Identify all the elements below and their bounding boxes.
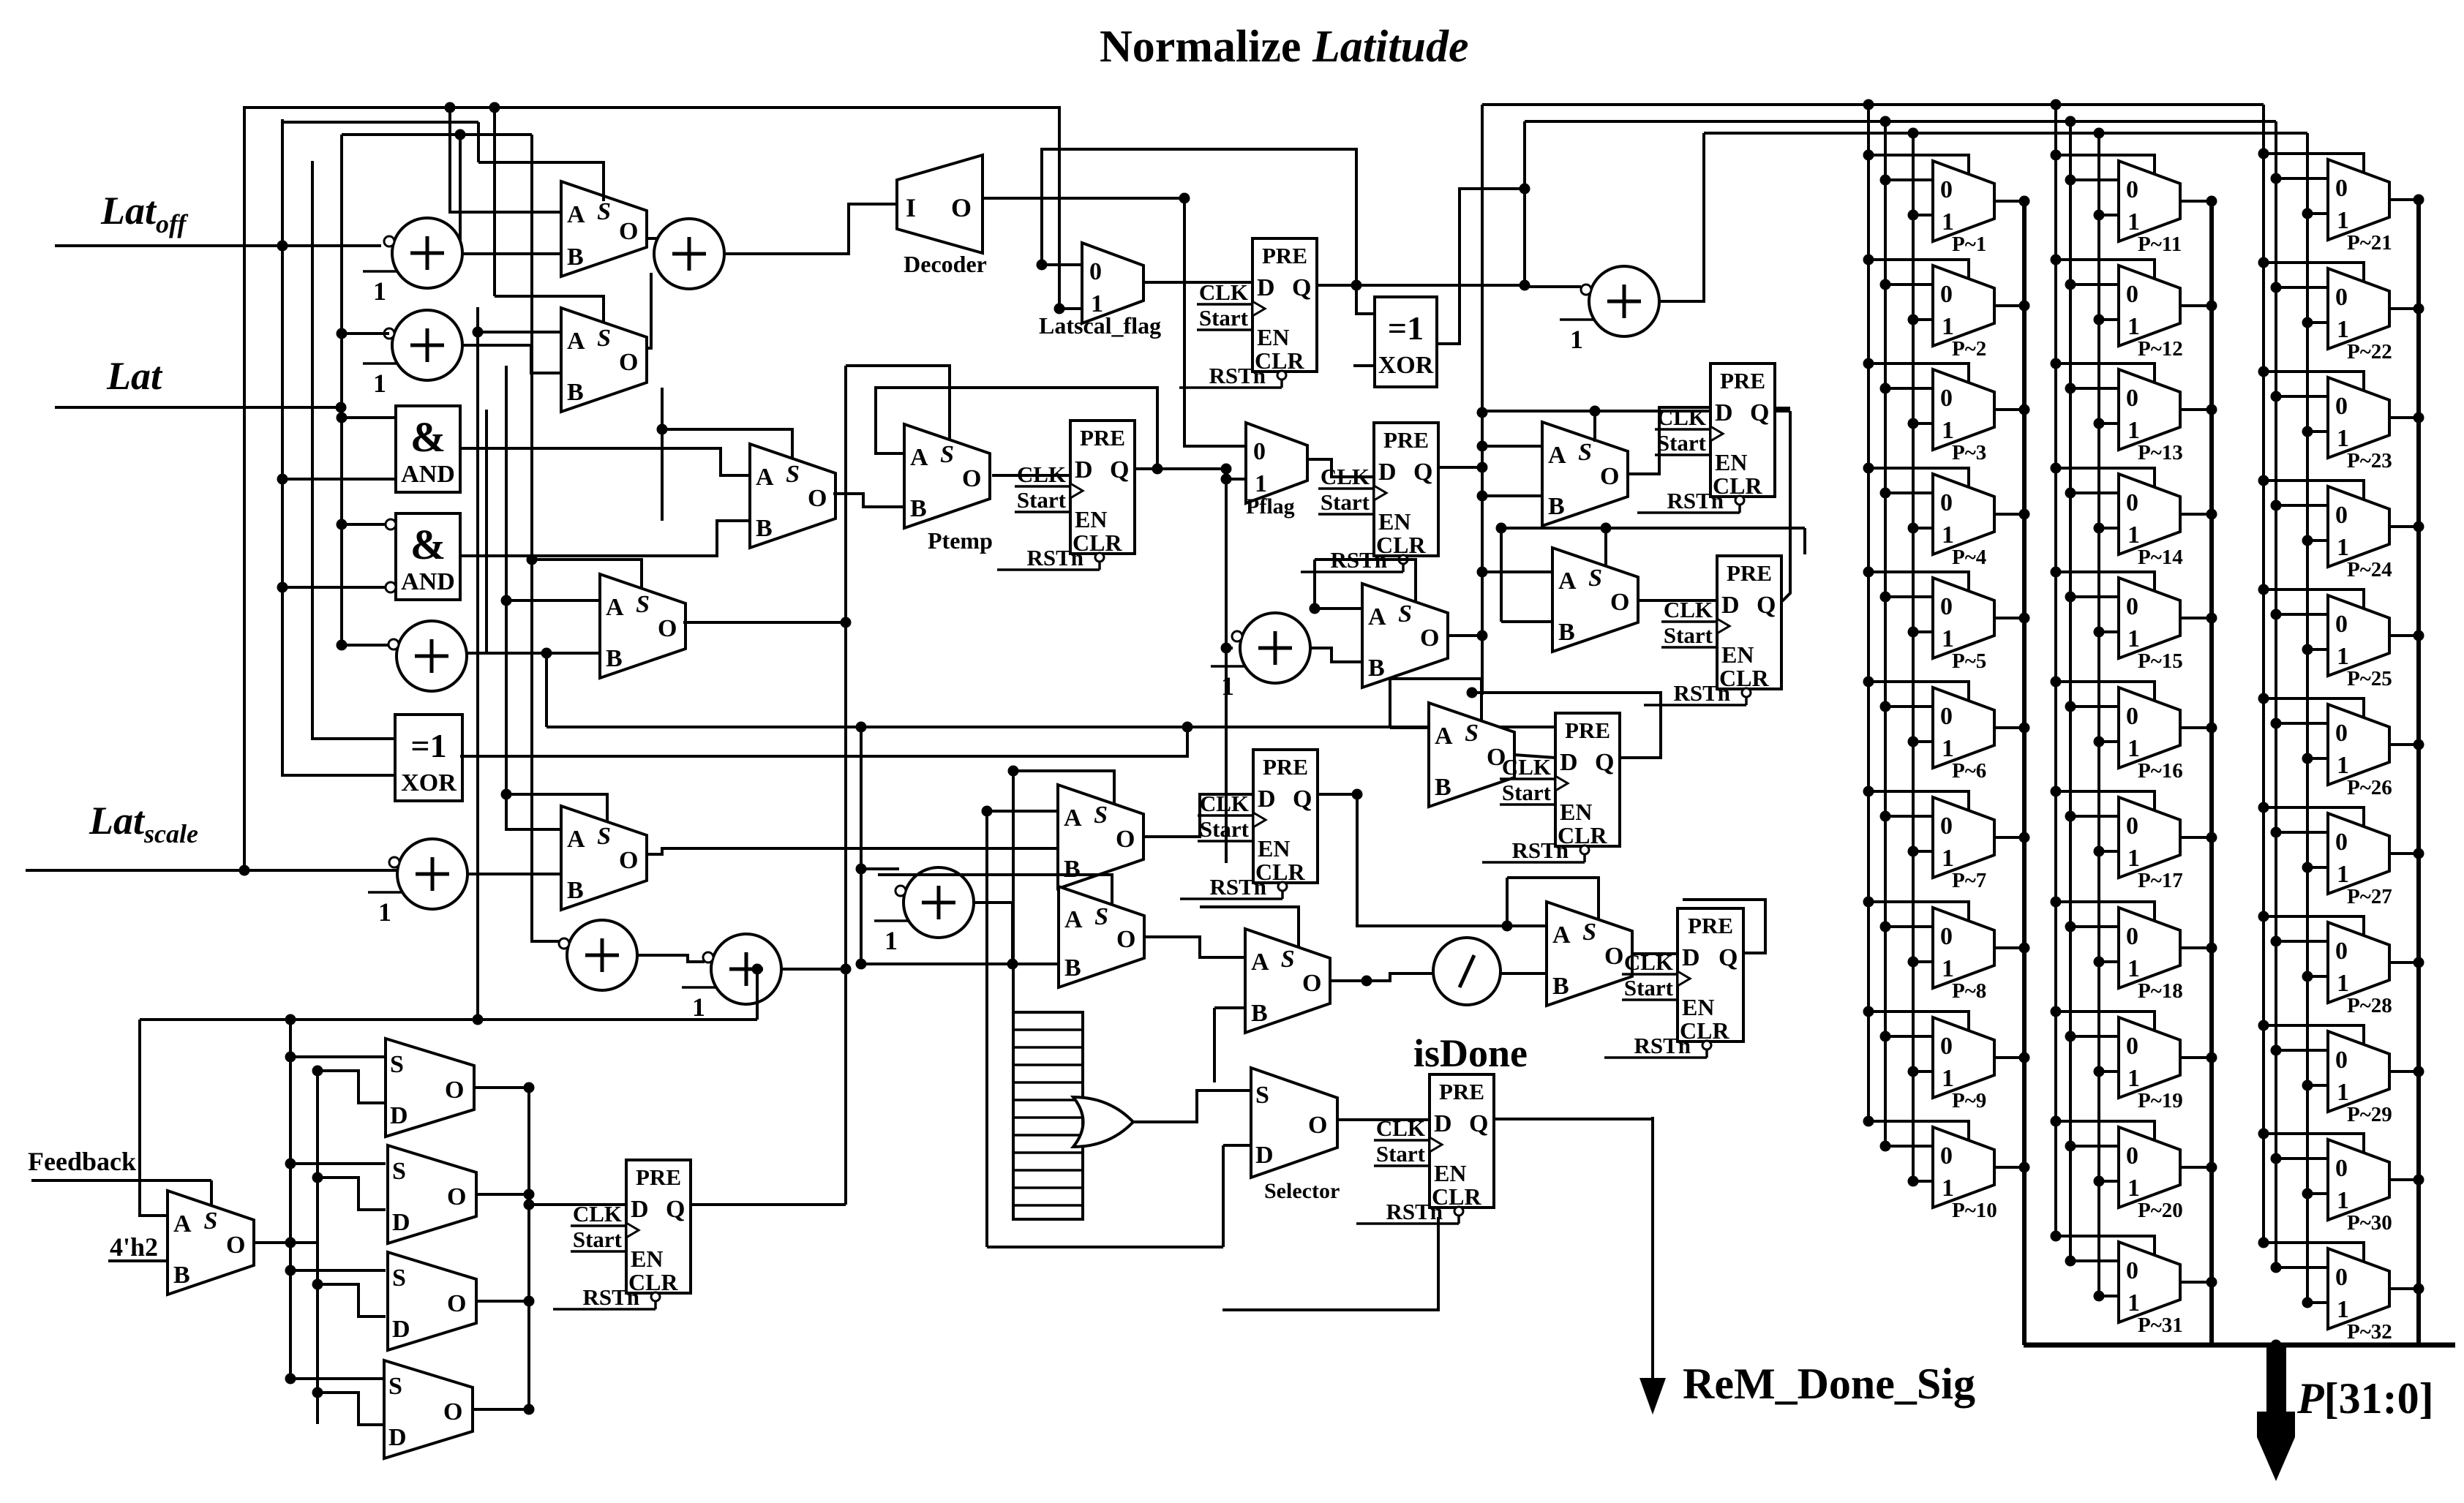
and gate AND2 bbox=[396, 513, 460, 600]
wire P~32 in0 bbox=[2271, 1262, 2329, 1273]
mux Latscal_flag bbox=[1082, 243, 1143, 323]
wire Pcol out bus x3023 bbox=[2209, 201, 2214, 1345]
wire rail V1156 bbox=[841, 366, 852, 1205]
svg-text:0: 0 bbox=[1940, 489, 1953, 516]
svg-text:B: B bbox=[567, 379, 584, 406]
dff DFF6 bbox=[1180, 750, 1318, 900]
wire P~9 sel bbox=[1863, 1006, 1969, 1031]
svg-text:P~5: P~5 bbox=[1952, 649, 1986, 673]
svg-text:P~27: P~27 bbox=[2347, 885, 2392, 908]
wire DFF9 Q bbox=[691, 1203, 846, 1206]
wire P~30 in1 bbox=[2302, 1189, 2329, 1199]
svg-text:1: 1 bbox=[2337, 752, 2349, 779]
svg-text:0: 0 bbox=[1940, 593, 1953, 620]
wire P~20 out bbox=[2180, 1162, 2217, 1173]
svg-text:Lat: Lat bbox=[106, 354, 163, 398]
svg-text:0: 0 bbox=[2126, 489, 2138, 516]
wire Ar out bbox=[1310, 648, 1362, 662]
input label 4h2 bbox=[110, 1232, 158, 1262]
wire rail V665 bbox=[485, 410, 488, 653]
input label Feedback bbox=[28, 1147, 136, 1176]
svg-text:Start: Start bbox=[1376, 1141, 1426, 1167]
svg-text:S: S bbox=[392, 1265, 406, 1292]
svg-text:0: 0 bbox=[2335, 1155, 2348, 1182]
svg-text:S: S bbox=[1398, 600, 1412, 628]
mux M7 bbox=[1552, 548, 1638, 652]
mux P~24 bbox=[2328, 486, 2392, 581]
mux P~13 bbox=[2119, 369, 2183, 464]
svg-text:D: D bbox=[392, 1209, 410, 1236]
wire P~6 sel bbox=[1863, 677, 1969, 701]
svg-text:1: 1 bbox=[378, 897, 391, 927]
svg-text:RSTn: RSTn bbox=[1673, 680, 1730, 706]
mux P~12 bbox=[2119, 265, 2183, 361]
wire SD S rail bbox=[285, 1020, 386, 1385]
svg-text:S: S bbox=[636, 591, 650, 618]
svg-text:P~15: P~15 bbox=[2138, 649, 2183, 673]
mux M9 bbox=[1059, 886, 1144, 987]
svg-text:P~12: P~12 bbox=[2138, 337, 2183, 361]
input label Lat_off bbox=[100, 189, 188, 238]
svg-text:1: 1 bbox=[1942, 625, 1954, 652]
svg-text:S: S bbox=[1255, 1082, 1269, 1109]
svg-text:1: 1 bbox=[2127, 845, 2140, 872]
wire Pcol one bus x2869 bbox=[2097, 133, 2100, 1292]
svg-text:O: O bbox=[619, 847, 638, 874]
wire P~32 in1 bbox=[2302, 1297, 2329, 1308]
wire M7 sel bbox=[1496, 523, 1806, 568]
svg-text:S: S bbox=[1465, 720, 1479, 747]
wire P~1 in0 bbox=[1880, 175, 1934, 186]
wire P~10 sel bbox=[1863, 1116, 1969, 1141]
wire P~25 in1 bbox=[2302, 644, 2329, 655]
svg-text:A: A bbox=[1558, 568, 1577, 595]
svg-text:Q: Q bbox=[1719, 944, 1738, 971]
svg-text:0: 0 bbox=[1940, 1142, 1953, 1169]
svg-text:P~7: P~7 bbox=[1952, 869, 1986, 892]
wire DFF7 Q bbox=[1467, 688, 1661, 758]
svg-text:EN: EN bbox=[1258, 835, 1290, 862]
wire P~6 out bbox=[1994, 723, 2030, 734]
svg-text:0: 0 bbox=[2126, 176, 2138, 203]
mux P~17 bbox=[2119, 797, 2183, 892]
dff isDone bbox=[1356, 1074, 1494, 1224]
svg-text:RSTn: RSTn bbox=[1209, 363, 1266, 388]
svg-text:EN: EN bbox=[631, 1246, 663, 1272]
svg-text:Start: Start bbox=[1017, 487, 1067, 513]
svg-text:P~22: P~22 bbox=[2347, 340, 2392, 363]
svg-text:P~20: P~20 bbox=[2138, 1199, 2183, 1222]
svg-text:1: 1 bbox=[2337, 970, 2349, 997]
wire AND2 in2 bbox=[282, 582, 396, 592]
wire M12 out bbox=[1514, 755, 1555, 758]
wire P~17 out bbox=[2180, 832, 2217, 843]
wire P~4 in0 bbox=[1880, 488, 1934, 499]
wire M6 sel bbox=[1482, 406, 1790, 442]
svg-text:1: 1 bbox=[2337, 316, 2349, 343]
adder A5 bbox=[368, 839, 467, 927]
svg-text:1: 1 bbox=[2127, 955, 2140, 982]
wire decoder out bbox=[983, 193, 1190, 204]
svg-text:0: 0 bbox=[1940, 281, 1953, 308]
svg-text:P~1: P~1 bbox=[1952, 233, 1986, 256]
dff DFF5 bbox=[1644, 556, 1781, 706]
wire bus A right bbox=[1482, 99, 2264, 110]
svg-text:1: 1 bbox=[1942, 1175, 1954, 1202]
wire Pcol one bus x3154 bbox=[2306, 133, 2309, 1298]
wire A4 out bbox=[1661, 133, 1704, 301]
svg-text:P~18: P~18 bbox=[2138, 979, 2183, 1003]
svg-text:A: A bbox=[1552, 922, 1571, 949]
wire P~31 in0 bbox=[2065, 1256, 2119, 1267]
wire P~24 in0 bbox=[2271, 500, 2329, 511]
svg-text:1: 1 bbox=[2337, 861, 2349, 888]
wire P~22 sel bbox=[2258, 257, 2365, 282]
wire P~2 out bbox=[1994, 301, 2030, 312]
svg-text:CLK: CLK bbox=[1199, 279, 1248, 305]
svg-text:P~11: P~11 bbox=[2138, 233, 2182, 256]
svg-text:0: 0 bbox=[1940, 1033, 1953, 1060]
wire A8 in bbox=[856, 864, 900, 875]
svg-text:=1: =1 bbox=[1388, 309, 1424, 347]
svg-text:A: A bbox=[567, 201, 585, 228]
wire M3 out bbox=[833, 494, 904, 507]
svg-text:1: 1 bbox=[2337, 534, 2349, 561]
svg-text:1: 1 bbox=[373, 369, 386, 398]
mux Pflag bbox=[1246, 423, 1307, 503]
wire M3 sel bbox=[662, 429, 792, 459]
wire bus Lnet2 bbox=[282, 121, 478, 124]
wire A3 out bbox=[726, 204, 897, 254]
and gate AND1 bbox=[396, 406, 460, 492]
mux M4 bbox=[600, 574, 686, 678]
wire P~15 in1 bbox=[2094, 627, 2119, 638]
wire M13 sel bbox=[1507, 878, 1599, 926]
mux P~8 bbox=[1933, 908, 1994, 1003]
svg-text:S: S bbox=[204, 1208, 218, 1235]
svg-text:O: O bbox=[1600, 463, 1619, 490]
wire Latscal in0 bbox=[1037, 260, 1083, 271]
wire P~28 sel bbox=[2258, 911, 2365, 936]
wire M9 out bbox=[1144, 937, 1245, 957]
svg-text:0: 0 bbox=[1940, 703, 1953, 730]
wire P~24 in1 bbox=[2302, 535, 2329, 546]
svg-text:A: A bbox=[606, 594, 624, 621]
wire P~13 in1 bbox=[2094, 418, 2119, 429]
wire Pcol out bus x2767 bbox=[2022, 201, 2027, 1345]
svg-text:PRE: PRE bbox=[1439, 1079, 1484, 1104]
wire wire L5 bbox=[856, 959, 1059, 970]
svg-text:A: A bbox=[567, 826, 585, 853]
svg-text:O: O bbox=[1116, 826, 1135, 853]
svg-text:D: D bbox=[1075, 456, 1093, 483]
mux M10 bbox=[1245, 929, 1330, 1033]
dff DFF7 bbox=[1482, 713, 1620, 863]
label Latscal_flag bbox=[1039, 312, 1161, 339]
svg-text:0: 0 bbox=[2126, 281, 2138, 308]
svg-text:1: 1 bbox=[2127, 1289, 2140, 1316]
wire P~15 sel bbox=[2051, 567, 2155, 592]
wire AND1 in1 bbox=[342, 416, 396, 419]
svg-text:0: 0 bbox=[2335, 502, 2348, 529]
svg-text:CLK: CLK bbox=[1321, 464, 1370, 489]
svg-text:CLK: CLK bbox=[1502, 754, 1551, 780]
svg-text:EN: EN bbox=[1075, 506, 1107, 532]
svg-text:CLK: CLK bbox=[1376, 1115, 1425, 1141]
svg-text:1: 1 bbox=[1942, 955, 1954, 982]
dff DFF3 Pflag bbox=[1301, 423, 1438, 573]
wire P~6 in0 bbox=[1880, 701, 1934, 712]
wire P~21 in0 bbox=[2271, 173, 2329, 184]
wire SD D rail bbox=[312, 1066, 386, 1425]
dff DFF9 bbox=[553, 1160, 691, 1310]
mux M14 4h2 bbox=[168, 1191, 254, 1295]
svg-text:&: & bbox=[410, 521, 446, 568]
svg-text:A: A bbox=[1064, 805, 1082, 832]
svg-text:A: A bbox=[1368, 603, 1386, 630]
wire rail R2 bbox=[277, 119, 396, 775]
wire P~6 in1 bbox=[1908, 737, 1934, 747]
svg-text:Q: Q bbox=[1293, 786, 1312, 813]
wire Ptemp out bbox=[992, 474, 1070, 477]
svg-text:P~14: P~14 bbox=[2138, 546, 2183, 569]
svg-text:P~25: P~25 bbox=[2347, 667, 2392, 690]
svg-text:A: A bbox=[756, 464, 774, 491]
svg-text:S: S bbox=[940, 441, 954, 468]
wire Pcol out bus x3306 bbox=[2416, 200, 2421, 1345]
adder A6 bbox=[559, 920, 637, 990]
wire P~22 in0 bbox=[2271, 282, 2329, 293]
wire rail R5 Lat bbox=[337, 135, 348, 645]
wire P~2 in0 bbox=[1880, 279, 1934, 290]
svg-text:0: 0 bbox=[2335, 720, 2348, 747]
wire M7 B bbox=[1501, 528, 1552, 622]
svg-text:&: & bbox=[410, 413, 446, 461]
svg-text:S: S bbox=[390, 1051, 404, 1078]
svg-text:0: 0 bbox=[2126, 1033, 2138, 1060]
wire P~12 sel bbox=[2051, 255, 2155, 279]
adder A3 bbox=[654, 219, 724, 289]
wire M8 A bbox=[982, 806, 1059, 817]
mux P~27 bbox=[2328, 813, 2392, 908]
svg-text:PRE: PRE bbox=[1262, 243, 1307, 268]
svg-text:CLK: CLK bbox=[1657, 404, 1706, 430]
dff DFF8 bbox=[1604, 908, 1743, 1058]
svg-text:RSTn: RSTn bbox=[1386, 1199, 1443, 1224]
wire P~20 in1 bbox=[2094, 1176, 2119, 1187]
wire P~18 in0 bbox=[2065, 922, 2119, 933]
wire P~27 in1 bbox=[2302, 862, 2329, 873]
wire Pcol sel bus x2810 bbox=[2054, 105, 2057, 1236]
svg-text:O: O bbox=[951, 193, 972, 222]
wire Ax out bbox=[467, 648, 600, 659]
wire P~7 out bbox=[1994, 832, 2030, 843]
svg-text:EN: EN bbox=[1378, 508, 1411, 535]
wire P~14 sel bbox=[2051, 463, 2155, 488]
svg-text:O: O bbox=[808, 485, 827, 512]
wire P output bottom bus bbox=[2024, 1340, 2455, 1351]
wire P~10 in1 bbox=[1908, 1176, 1934, 1187]
wire P~30 out bbox=[2389, 1175, 2424, 1186]
svg-text:Q: Q bbox=[1750, 399, 1769, 426]
wire P~13 out bbox=[2180, 404, 2217, 415]
svg-text:O: O bbox=[445, 1077, 464, 1104]
svg-text:Start: Start bbox=[573, 1227, 623, 1252]
wire P~29 out bbox=[2389, 1066, 2424, 1077]
mux P~29 bbox=[2328, 1031, 2392, 1126]
svg-text:1: 1 bbox=[884, 926, 898, 955]
wire P~16 in0 bbox=[2065, 701, 2119, 712]
wire A2 out bbox=[462, 345, 561, 373]
mux P~9 bbox=[1933, 1017, 1994, 1112]
svg-text:0: 0 bbox=[1940, 813, 1953, 840]
svg-text:1: 1 bbox=[1942, 417, 1954, 444]
wire P~12 in0 bbox=[2065, 279, 2119, 290]
wire Feedback input bbox=[31, 1180, 211, 1205]
wire isDone Q bbox=[1494, 1118, 1653, 1120]
svg-text:O: O bbox=[658, 615, 677, 642]
svg-text:AND: AND bbox=[401, 568, 455, 595]
svg-text:0: 0 bbox=[2126, 1142, 2138, 1169]
svg-text:A: A bbox=[1548, 442, 1566, 469]
wire P~15 in0 bbox=[2065, 592, 2119, 603]
wire M5 sel bbox=[506, 794, 607, 823]
wire Pcol zero bus x2830 bbox=[2069, 121, 2072, 1261]
mux M1 bbox=[561, 181, 647, 276]
wire Pcol zero bus x3111 bbox=[2275, 121, 2277, 1267]
output arrow ReM_Done_Sig bbox=[1639, 1117, 1975, 1415]
mux P~20 bbox=[2119, 1127, 2183, 1222]
wire A1 out bbox=[462, 252, 561, 255]
wire bus Lnet1 bbox=[243, 102, 1059, 113]
svg-text:S: S bbox=[388, 1373, 402, 1400]
wire P~14 out bbox=[2180, 509, 2217, 520]
wire bus Lnet3 bbox=[342, 129, 532, 140]
svg-text:isDone: isDone bbox=[1413, 1031, 1528, 1075]
wire P~8 in0 bbox=[1880, 922, 1934, 933]
svg-text:A: A bbox=[173, 1210, 192, 1238]
wire SD O rail bbox=[474, 1082, 535, 1415]
svg-text:O: O bbox=[1420, 625, 1439, 652]
xor gate XOR1 bbox=[395, 715, 462, 801]
wire P~14 in1 bbox=[2094, 523, 2119, 534]
svg-text:S: S bbox=[597, 823, 611, 850]
svg-text:1: 1 bbox=[2127, 1065, 2140, 1092]
wire P~17 in0 bbox=[2065, 811, 2119, 822]
mux P~3 bbox=[1933, 369, 1994, 464]
svg-text:1: 1 bbox=[1942, 735, 1954, 762]
svg-text:1: 1 bbox=[2127, 417, 2140, 444]
wire SD out to DFF9 bbox=[524, 1199, 535, 1210]
mux P~5 bbox=[1933, 578, 1994, 673]
adder A8 bbox=[874, 867, 974, 955]
wire rail V905 bbox=[657, 388, 668, 521]
wire P~32 out bbox=[2389, 1284, 2424, 1295]
wire rail R1 bbox=[243, 106, 246, 870]
svg-text:D: D bbox=[1255, 1142, 1274, 1169]
wire P~11 in1 bbox=[2094, 210, 2119, 221]
svg-text:0: 0 bbox=[2126, 813, 2138, 840]
svg-text:P[31:0]: P[31:0] bbox=[2296, 1374, 2434, 1423]
wire M7 out bbox=[1638, 599, 1717, 602]
wire rail V1349 bbox=[985, 811, 988, 1247]
wire Pflag in1 bbox=[1221, 474, 1247, 485]
svg-text:RSTn: RSTn bbox=[1209, 874, 1266, 900]
wire P~30 in0 bbox=[2271, 1153, 2329, 1164]
wire A8 out bbox=[974, 903, 1013, 964]
wire A4 in bbox=[1525, 285, 1581, 288]
wire M10 sel bbox=[1200, 907, 1299, 948]
wire rail V615 bbox=[450, 108, 561, 212]
wire P~22 in1 bbox=[2302, 317, 2329, 328]
wire P~10 in0 bbox=[1880, 1141, 1934, 1152]
wire P~19 in1 bbox=[2094, 1066, 2119, 1077]
svg-text:Q: Q bbox=[1413, 459, 1432, 486]
svg-text:1: 1 bbox=[2337, 1187, 2349, 1214]
wire M11 out bbox=[1448, 630, 1488, 641]
svg-text:1: 1 bbox=[2337, 643, 2349, 670]
wire P~28 out bbox=[2389, 957, 2424, 968]
mux P~22 bbox=[2328, 268, 2392, 363]
wire M13 B bbox=[1500, 972, 1547, 975]
wire M6 B bbox=[1482, 494, 1542, 497]
svg-text:Normalize Latitude: Normalize Latitude bbox=[1100, 22, 1469, 72]
svg-text:RSTn: RSTn bbox=[1511, 837, 1569, 863]
mux P~14 bbox=[2119, 474, 2183, 569]
svg-text:P~17: P~17 bbox=[2138, 869, 2183, 892]
svg-text:EN: EN bbox=[1257, 324, 1289, 350]
svg-text:P~30: P~30 bbox=[2347, 1211, 2392, 1235]
svg-text:PRE: PRE bbox=[636, 1164, 681, 1190]
wire P~4 in1 bbox=[1908, 523, 1934, 534]
svg-text:0: 0 bbox=[2335, 1264, 2348, 1291]
wire P~4 sel bbox=[1863, 463, 1969, 488]
svg-text:Feedback: Feedback bbox=[28, 1147, 136, 1176]
wire M13 A bbox=[1502, 921, 1547, 932]
svg-text:B: B bbox=[1064, 954, 1081, 982]
dff DFF4 bbox=[1637, 363, 1775, 513]
wire bus C right bbox=[1704, 128, 2307, 139]
wire wire L1 bbox=[546, 653, 1555, 733]
wire P~11 out bbox=[2180, 196, 2217, 207]
selector mux bbox=[1251, 1068, 1340, 1203]
svg-text:PRE: PRE bbox=[1080, 425, 1125, 451]
svg-text:Decoder: Decoder bbox=[904, 251, 987, 277]
wire P~1 sel bbox=[1863, 150, 1969, 175]
svg-text:O: O bbox=[962, 465, 981, 492]
mux P~30 bbox=[2328, 1140, 2392, 1235]
wire P~16 in1 bbox=[2094, 737, 2119, 747]
svg-text:S: S bbox=[392, 1158, 406, 1185]
svg-text:P~2: P~2 bbox=[1952, 337, 1986, 361]
wire P~10 out bbox=[1994, 1162, 2030, 1173]
wire P~19 in0 bbox=[2065, 1031, 2119, 1042]
svg-text:XOR: XOR bbox=[401, 769, 457, 796]
svg-text:EN: EN bbox=[1682, 994, 1714, 1020]
mux P~32 bbox=[2328, 1248, 2392, 1344]
wire Pcol zero bus x2577 bbox=[1884, 121, 1887, 1146]
wire rail R3 bbox=[312, 161, 395, 739]
input label Lat bbox=[106, 354, 163, 398]
wire P~23 in0 bbox=[2271, 391, 2329, 402]
wire P~27 out bbox=[2389, 848, 2424, 859]
svg-text:S: S bbox=[1588, 565, 1602, 592]
mux P~7 bbox=[1933, 797, 1994, 892]
svg-text:AND: AND bbox=[401, 461, 455, 488]
svg-text:O: O bbox=[1308, 1112, 1327, 1139]
wire Ar in bbox=[1221, 643, 1233, 654]
or gate OR1 bbox=[1073, 1097, 1133, 1147]
